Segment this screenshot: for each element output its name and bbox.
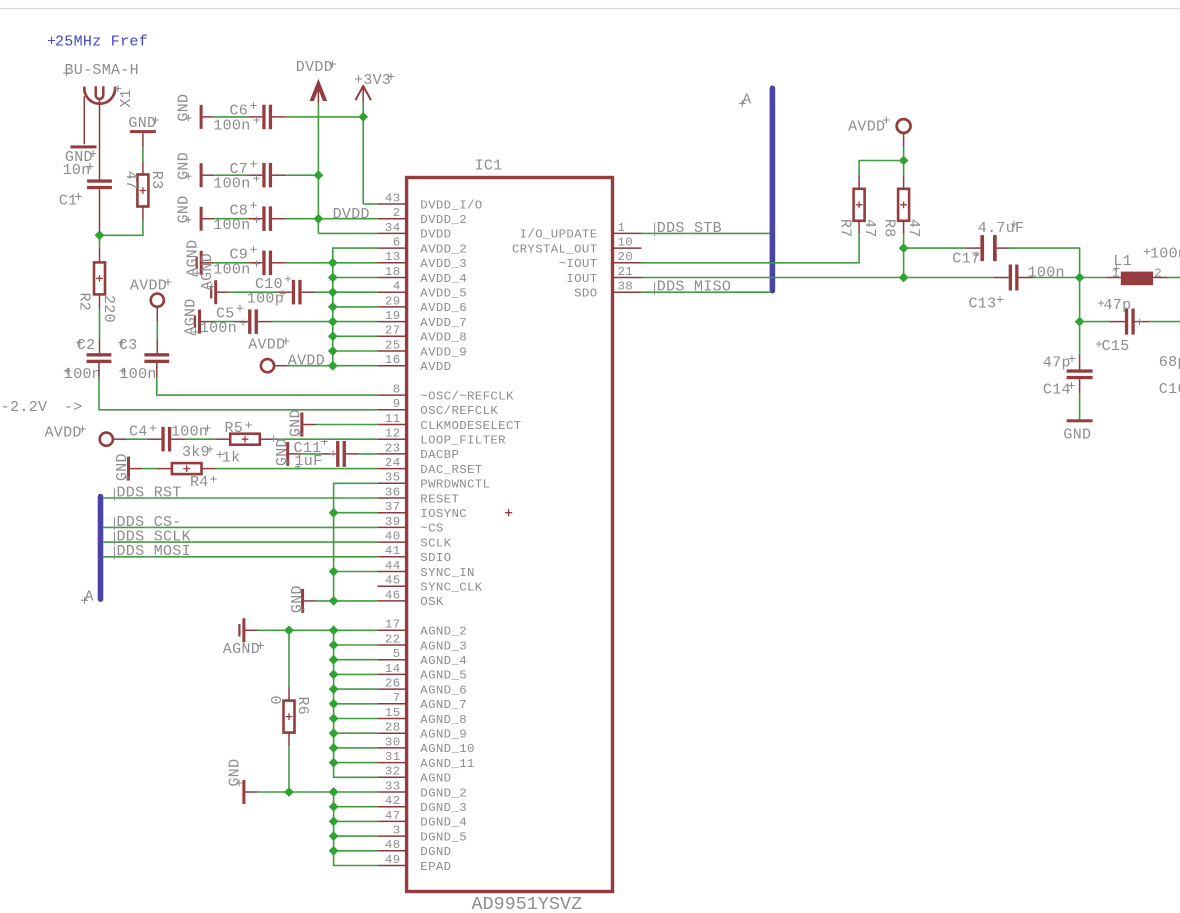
svg-text:35: 35 bbox=[385, 471, 401, 485]
resistor R5 bbox=[230, 434, 260, 445]
svg-text:OSK: OSK bbox=[420, 595, 444, 609]
wire C8 to DVDD node and pin 2 bbox=[272, 218, 286, 220]
wire C3 to pin 8 bbox=[156, 363, 158, 378]
junction DGND pin 33 bbox=[329, 787, 339, 797]
capacitor C10 bbox=[292, 280, 295, 305]
wire +3V3 vertical to pin 43 bbox=[362, 103, 364, 204]
svg-text:100n: 100n bbox=[213, 261, 250, 278]
pin 28 stub bbox=[377, 732, 406, 734]
pin 27 stub bbox=[377, 335, 406, 337]
svg-text:R4: R4 bbox=[190, 474, 209, 491]
bus A (left) bbox=[98, 494, 104, 602]
wire AGND to pin 7 bbox=[334, 703, 378, 705]
wire pin 21 to C13 bbox=[642, 277, 995, 279]
wire AGND to pin 26 bbox=[334, 688, 378, 690]
ground GND (above R3, flipped) bbox=[130, 130, 156, 133]
wire GND to pin 11 bbox=[303, 424, 316, 426]
wire GND to C11 bbox=[289, 453, 301, 455]
wire DDS_STB bbox=[642, 232, 770, 234]
pin 35 stub bbox=[377, 482, 406, 484]
svg-text:3: 3 bbox=[393, 824, 401, 838]
wire AVDD to pin 29 bbox=[333, 306, 378, 308]
svg-text:20: 20 bbox=[618, 250, 634, 264]
svg-text:30: 30 bbox=[385, 735, 401, 749]
svg-text:DVDD_2: DVDD_2 bbox=[420, 213, 467, 227]
svg-text:42: 42 bbox=[385, 794, 401, 808]
wire DGND to pin 3 bbox=[334, 835, 378, 837]
svg-text:R8: R8 bbox=[880, 219, 897, 238]
wire R4 to pin 24 bbox=[202, 468, 216, 470]
junction DVDD/C7 bbox=[314, 170, 324, 180]
ground GND (pin46) bbox=[301, 589, 304, 613]
wire AGND to C10 bbox=[217, 291, 229, 293]
pin 20 stub bbox=[613, 262, 642, 264]
svg-text:IOUT: IOUT bbox=[566, 272, 597, 286]
svg-text:45: 45 bbox=[385, 574, 401, 588]
capacitor C11 bbox=[336, 441, 339, 467]
wire C10 to AVDD node bbox=[302, 291, 316, 293]
resistor R4 bbox=[172, 463, 202, 474]
svg-text:47: 47 bbox=[861, 219, 878, 238]
svg-text:AGND: AGND bbox=[199, 253, 216, 290]
svg-text:DDS_MOSI: DDS_MOSI bbox=[117, 543, 191, 560]
wire DDS_CS- bbox=[103, 526, 377, 528]
capacitor C6 bbox=[262, 105, 265, 130]
svg-text:->: -> bbox=[64, 399, 83, 416]
pin 2 stub bbox=[377, 218, 406, 220]
pin 30 stub bbox=[377, 747, 406, 749]
svg-text:19: 19 bbox=[385, 309, 401, 323]
svg-text:AVDD: AVDD bbox=[45, 425, 82, 442]
svg-text:R3: R3 bbox=[148, 171, 165, 190]
svg-text:GND: GND bbox=[176, 152, 193, 180]
wire GND to C7 bbox=[203, 174, 215, 176]
svg-text:28: 28 bbox=[385, 721, 401, 735]
pin 25 stub bbox=[377, 350, 406, 352]
pin 8 stub bbox=[377, 394, 406, 396]
wire GND to pin 46 bbox=[304, 600, 316, 602]
svg-text:GND: GND bbox=[287, 409, 304, 437]
svg-text:AD9951YSVZ: AD9951YSVZ bbox=[472, 895, 583, 913]
svg-text:3k9: 3k9 bbox=[182, 444, 210, 461]
ground GND (C11) bbox=[286, 442, 289, 466]
supply DVDD arrow bbox=[310, 79, 328, 101]
svg-text:GND: GND bbox=[289, 585, 306, 613]
svg-text:AVDD_3: AVDD_3 bbox=[420, 257, 467, 271]
svg-text:AGND: AGND bbox=[420, 772, 451, 786]
junction node X1/C1/R3/R2 bbox=[95, 230, 105, 240]
pin 12 stub bbox=[377, 438, 406, 440]
pin 32 stub bbox=[377, 776, 406, 778]
wire C6 to +3V3 node bbox=[272, 116, 286, 118]
svg-text:SYNC_IN: SYNC_IN bbox=[420, 566, 475, 580]
wire R7 to pin 20 bbox=[858, 220, 860, 234]
ground GND (C6) bbox=[200, 105, 203, 129]
resistor R3 bbox=[137, 175, 148, 207]
svg-text:C16: C16 bbox=[1159, 381, 1180, 398]
pin 46 stub bbox=[377, 600, 406, 602]
wire AGND to C9 bbox=[203, 262, 215, 264]
svg-text:12: 12 bbox=[385, 427, 401, 441]
junction AGND pin 26 bbox=[329, 684, 339, 694]
svg-text:BU-SMA-H: BU-SMA-H bbox=[65, 62, 139, 79]
wire DGND to pin 47 bbox=[334, 820, 378, 822]
IC1 origin cross bbox=[505, 509, 512, 516]
connector X1 BU-SMA-H bbox=[84, 87, 115, 104]
pin 3 stub bbox=[377, 835, 406, 837]
svg-text:1: 1 bbox=[618, 221, 626, 235]
wire R6 to DGND bbox=[288, 732, 290, 747]
svg-text:AVDD_8: AVDD_8 bbox=[420, 331, 467, 345]
pin 10 stub bbox=[613, 247, 642, 249]
svg-text:100n: 100n bbox=[213, 117, 250, 134]
svg-text:41: 41 bbox=[385, 544, 401, 558]
capacitor C13 bbox=[1009, 265, 1012, 291]
wire GND to C8 bbox=[203, 218, 215, 220]
svg-text:15: 15 bbox=[385, 706, 401, 720]
wire C7 to DVDD node bbox=[272, 174, 286, 176]
capacitor C17 bbox=[980, 235, 984, 261]
junction AGND pin 22 bbox=[329, 640, 339, 650]
wire AGND to pin 5 bbox=[334, 659, 378, 661]
wire DGND vertical (pins 33-49) bbox=[334, 792, 378, 866]
pin 44 stub bbox=[377, 571, 406, 573]
svg-text:2: 2 bbox=[1154, 267, 1162, 281]
svg-text:AVDD_9: AVDD_9 bbox=[420, 345, 467, 359]
svg-text:SYNC_CLK: SYNC_CLK bbox=[420, 581, 482, 595]
ground GND (C8) bbox=[200, 207, 203, 231]
svg-text:AVDD: AVDD bbox=[848, 119, 885, 136]
wire node to R2 bbox=[99, 235, 101, 248]
svg-text:9: 9 bbox=[393, 397, 401, 411]
junction DGND pin 47 bbox=[329, 817, 339, 827]
svg-text:AGND_9: AGND_9 bbox=[420, 728, 467, 742]
junction AGND/R6 top bbox=[284, 625, 294, 635]
wire AVDD to R7 bbox=[859, 161, 904, 176]
svg-text:100n: 100n bbox=[1150, 246, 1180, 263]
wire AGND to R6 bbox=[288, 630, 290, 687]
svg-text:22: 22 bbox=[385, 632, 401, 646]
svg-text:GND: GND bbox=[176, 94, 193, 122]
pin 45 stub bbox=[377, 585, 406, 587]
wire X1 center to C1 bbox=[99, 100, 101, 180]
svg-text:C13: C13 bbox=[969, 295, 997, 312]
resistor R8 bbox=[898, 189, 909, 221]
svg-text:18: 18 bbox=[385, 265, 401, 279]
wire C17 to corner bbox=[997, 247, 1011, 249]
svg-text:1uF: 1uF bbox=[295, 453, 323, 470]
svg-text:100n: 100n bbox=[213, 176, 250, 193]
capacitor C15 bbox=[1125, 309, 1128, 335]
junction AVDD pin 25 bbox=[328, 346, 338, 356]
svg-text:R5: R5 bbox=[225, 420, 244, 437]
svg-text:220: 220 bbox=[100, 295, 117, 323]
wire to C14 bbox=[1079, 322, 1081, 355]
svg-text:DVDD: DVDD bbox=[296, 59, 333, 76]
svg-text:RESET: RESET bbox=[420, 492, 459, 506]
svg-text:48: 48 bbox=[385, 838, 401, 852]
svg-text:DGND: DGND bbox=[420, 845, 451, 859]
svg-text:AGND: AGND bbox=[223, 641, 260, 658]
wire junction down to C15 node bbox=[1079, 278, 1081, 322]
wire C5 to AVDD node bbox=[258, 321, 272, 323]
frame line bbox=[0, 8, 1180, 10]
svg-text:1k: 1k bbox=[222, 449, 241, 466]
junction AGND pin 28 bbox=[329, 728, 339, 738]
capacitor C7 bbox=[262, 163, 265, 188]
svg-text:A: A bbox=[742, 92, 751, 109]
wire DDS_MISO bbox=[642, 291, 772, 293]
ground GND (pin33) bbox=[242, 780, 245, 804]
svg-text:49: 49 bbox=[385, 853, 401, 867]
svg-text:AGND_5: AGND_5 bbox=[420, 669, 467, 683]
pin 13 stub bbox=[377, 262, 406, 264]
svg-text:GND: GND bbox=[226, 759, 243, 787]
wire to C15 bbox=[1080, 321, 1110, 323]
ground AGND (C10) bbox=[214, 280, 217, 304]
svg-text:47: 47 bbox=[385, 809, 401, 823]
pin 6 stub bbox=[377, 247, 406, 249]
junction DGND pin 42 bbox=[329, 802, 339, 812]
svg-text:C4: C4 bbox=[129, 423, 148, 440]
wire GND net vertical (pins 35-46) bbox=[334, 483, 378, 601]
svg-text:21: 21 bbox=[618, 265, 634, 279]
svg-text:47: 47 bbox=[122, 171, 139, 190]
svg-text:100n: 100n bbox=[120, 366, 157, 383]
svg-text:14: 14 bbox=[385, 662, 401, 676]
junction C15/C14 bbox=[1075, 317, 1085, 327]
svg-text:100n: 100n bbox=[171, 423, 208, 440]
pin 4 stub bbox=[377, 291, 406, 293]
junction R8/IOUT bbox=[899, 273, 909, 283]
pin 37 stub bbox=[377, 512, 406, 514]
svg-text:1: 1 bbox=[1112, 267, 1120, 281]
capacitor C8 bbox=[262, 206, 265, 231]
wire C13 to L1 node bbox=[1019, 277, 1034, 279]
wire AGND to C5 bbox=[201, 321, 213, 323]
pin 14 stub bbox=[377, 673, 406, 675]
wire GND to C6 bbox=[203, 116, 215, 118]
pin 5 stub bbox=[377, 659, 406, 661]
supply AVDD circle (right) bbox=[897, 119, 911, 133]
wire AGND to pin 15 bbox=[334, 718, 378, 720]
svg-text:AVDD_7: AVDD_7 bbox=[420, 316, 467, 330]
wire DGND to pin 48 bbox=[334, 850, 378, 852]
pin 48 stub bbox=[377, 850, 406, 852]
svg-text:DGND_2: DGND_2 bbox=[420, 786, 467, 800]
svg-text:36: 36 bbox=[385, 485, 401, 499]
pin 15 stub bbox=[377, 718, 406, 720]
pin 23 stub bbox=[377, 453, 406, 455]
inductor L1 bbox=[1106, 277, 1121, 279]
junction pin 44 bbox=[329, 567, 339, 577]
junction AVDD pin 19 bbox=[328, 317, 338, 327]
svg-text:4.7uF: 4.7uF bbox=[978, 220, 1025, 237]
junction AGND pin 15 bbox=[329, 714, 339, 724]
capacitor C9 bbox=[262, 251, 265, 276]
wire GND to pin 33 bbox=[245, 791, 257, 793]
supply +3V3 arrow bbox=[355, 86, 371, 100]
svg-text:+3V3: +3V3 bbox=[354, 72, 391, 89]
svg-text:0: 0 bbox=[266, 696, 283, 705]
junction AVDD pin 16 bbox=[328, 361, 338, 371]
supply AVDD (C3) bbox=[151, 294, 164, 307]
resistor R2 bbox=[94, 262, 105, 294]
junction DGND pin 48 bbox=[329, 846, 339, 856]
pin 34 stub bbox=[377, 232, 406, 234]
junction AVDD pin 29 bbox=[328, 302, 338, 312]
ground GND (C7) bbox=[200, 163, 203, 187]
svg-text:8: 8 bbox=[393, 383, 401, 397]
pin 1 stub bbox=[613, 232, 642, 234]
svg-text:SDIO: SDIO bbox=[420, 551, 451, 565]
svg-text:GND: GND bbox=[128, 115, 156, 132]
svg-text:32: 32 bbox=[385, 765, 401, 779]
svg-text:DGND_3: DGND_3 bbox=[420, 801, 467, 815]
pin 40 stub bbox=[377, 541, 406, 543]
supply AVDD circle (pin16) bbox=[261, 359, 274, 372]
svg-text:AVDD: AVDD bbox=[288, 353, 325, 370]
wire AVDD to pin 13 bbox=[333, 262, 378, 264]
wire AVDD to pin 4 bbox=[333, 291, 378, 293]
svg-text:0-2.2V: 0-2.2V bbox=[0, 399, 47, 416]
junction +3V3/C6 bbox=[358, 112, 368, 122]
wire C4 to R5 bbox=[171, 438, 185, 440]
wire C2 to pin 9 bbox=[98, 363, 100, 378]
wire AVDD to pin 25 bbox=[333, 350, 378, 352]
wire DDS_MOSI bbox=[103, 556, 377, 558]
pin 47 stub bbox=[377, 820, 406, 822]
svg-text:31: 31 bbox=[385, 750, 401, 764]
svg-text:100n: 100n bbox=[1028, 264, 1065, 281]
ground AGND (C9) bbox=[200, 251, 203, 275]
wire R8 to row21 bbox=[903, 248, 905, 277]
svg-text:AVDD_6: AVDD_6 bbox=[420, 301, 467, 315]
wire C1 to node A1 bbox=[99, 189, 101, 235]
svg-text:37: 37 bbox=[385, 500, 401, 514]
svg-text:AGND_6: AGND_6 bbox=[420, 683, 467, 697]
svg-text:GND: GND bbox=[1063, 427, 1091, 444]
pin 19 stub bbox=[377, 321, 406, 323]
svg-text:OSC/REFCLK: OSC/REFCLK bbox=[420, 404, 498, 418]
ground GND (C14) bbox=[1067, 419, 1093, 422]
svg-text:LOOP_FILTER: LOOP_FILTER bbox=[420, 434, 506, 448]
ground GND (X1 shield) bbox=[71, 145, 97, 148]
wire C9 to AVDD node bbox=[272, 262, 286, 264]
capacitor C2 bbox=[87, 353, 112, 356]
svg-text:AVDD_5: AVDD_5 bbox=[420, 287, 467, 301]
pin 31 stub bbox=[377, 762, 406, 764]
svg-text:R6: R6 bbox=[294, 697, 311, 716]
capacitor C1 bbox=[87, 179, 112, 182]
wire AGND to pin 22 bbox=[334, 644, 378, 646]
svg-text:I/O_UPDATE: I/O_UPDATE bbox=[520, 228, 598, 242]
svg-text:EPAD: EPAD bbox=[420, 860, 451, 874]
ground AGND (C5) bbox=[198, 310, 201, 334]
svg-text:11: 11 bbox=[385, 412, 401, 426]
wire AVDD to pin 27 bbox=[333, 335, 378, 337]
junction AGND pin 7 bbox=[329, 699, 339, 709]
svg-text:6: 6 bbox=[393, 236, 401, 250]
wire X1 shield to GND bbox=[83, 96, 85, 144]
svg-text:13: 13 bbox=[385, 250, 401, 264]
resistor R7 bbox=[854, 189, 865, 221]
svg-text:DDS_RST: DDS_RST bbox=[117, 484, 182, 501]
wire C11 to pin 23 bbox=[346, 453, 358, 455]
svg-text:AVDD: AVDD bbox=[420, 360, 451, 374]
wire AVDD vertical bus bbox=[333, 248, 378, 366]
svg-text:C15: C15 bbox=[1102, 338, 1130, 355]
pin 41 stub bbox=[377, 556, 406, 558]
wire GND net to pin 37 bbox=[334, 512, 378, 514]
junction GND/R6 bottom bbox=[284, 787, 294, 797]
wire DDS_RST bbox=[103, 497, 377, 499]
svg-text:100n: 100n bbox=[200, 320, 237, 337]
svg-text:40: 40 bbox=[385, 530, 401, 544]
pin 29 stub bbox=[377, 306, 406, 308]
junction AGND pin 31 bbox=[329, 758, 339, 768]
wire R3 to node bbox=[142, 205, 144, 220]
svg-text:27: 27 bbox=[385, 324, 401, 338]
pin 49 stub bbox=[377, 865, 406, 867]
svg-text:47p: 47p bbox=[1043, 354, 1071, 371]
wire GND net to pin 44 bbox=[334, 571, 378, 573]
svg-text:24: 24 bbox=[385, 456, 401, 470]
wire L1 to edge bbox=[1167, 277, 1180, 279]
capacitor C5 bbox=[248, 309, 251, 334]
junction R8/C17 bbox=[899, 243, 909, 253]
wire AGND vertical (pins 17-32) bbox=[334, 630, 378, 777]
svg-text:R2: R2 bbox=[76, 293, 93, 312]
pin 21 stub bbox=[613, 277, 642, 279]
resistor R6 bbox=[284, 701, 295, 733]
wire AGND to pin 14 bbox=[334, 673, 378, 675]
svg-text:47: 47 bbox=[905, 219, 922, 238]
pin 7 stub bbox=[377, 703, 406, 705]
pin 16 stub bbox=[377, 365, 406, 367]
ground GND (R4) bbox=[127, 457, 130, 481]
svg-text:44: 44 bbox=[385, 559, 401, 573]
svg-text:46: 46 bbox=[385, 588, 401, 602]
svg-text:17: 17 bbox=[385, 618, 401, 632]
wire AVDD to pin 18 bbox=[333, 277, 378, 279]
svg-text:C1: C1 bbox=[59, 192, 78, 209]
pin 24 stub bbox=[377, 468, 406, 470]
wire R5 to pin 12 bbox=[260, 438, 274, 440]
svg-text:26: 26 bbox=[385, 677, 401, 691]
IC IC1 AD9951YSVZ box bbox=[407, 178, 613, 892]
svg-text:IOSYNC: IOSYNC bbox=[420, 507, 467, 521]
wire R8 down bbox=[903, 220, 905, 234]
svg-text:DACBP: DACBP bbox=[420, 448, 459, 462]
pin 33 stub bbox=[377, 791, 406, 793]
pin 11 stub bbox=[377, 424, 406, 426]
svg-text:CLKMODESELECT: CLKMODESELECT bbox=[420, 419, 521, 433]
junction AGND pin 17 bbox=[329, 625, 339, 635]
svg-text:AGND: AGND bbox=[183, 298, 200, 335]
wire DVDD vertical bbox=[317, 104, 319, 234]
wire AVDD to C3 bbox=[156, 307, 158, 322]
svg-text:10: 10 bbox=[618, 236, 634, 250]
svg-text:39: 39 bbox=[385, 515, 401, 529]
wire AVDD circle to pin 16 bbox=[274, 365, 287, 367]
svg-text:100n: 100n bbox=[213, 217, 250, 234]
svg-text:7: 7 bbox=[393, 691, 401, 705]
wire AVDD to R8 bbox=[903, 161, 905, 176]
capacitor C3 bbox=[144, 353, 169, 356]
svg-text:SCLK: SCLK bbox=[420, 536, 451, 550]
junction AGND pin 30 bbox=[329, 743, 339, 753]
